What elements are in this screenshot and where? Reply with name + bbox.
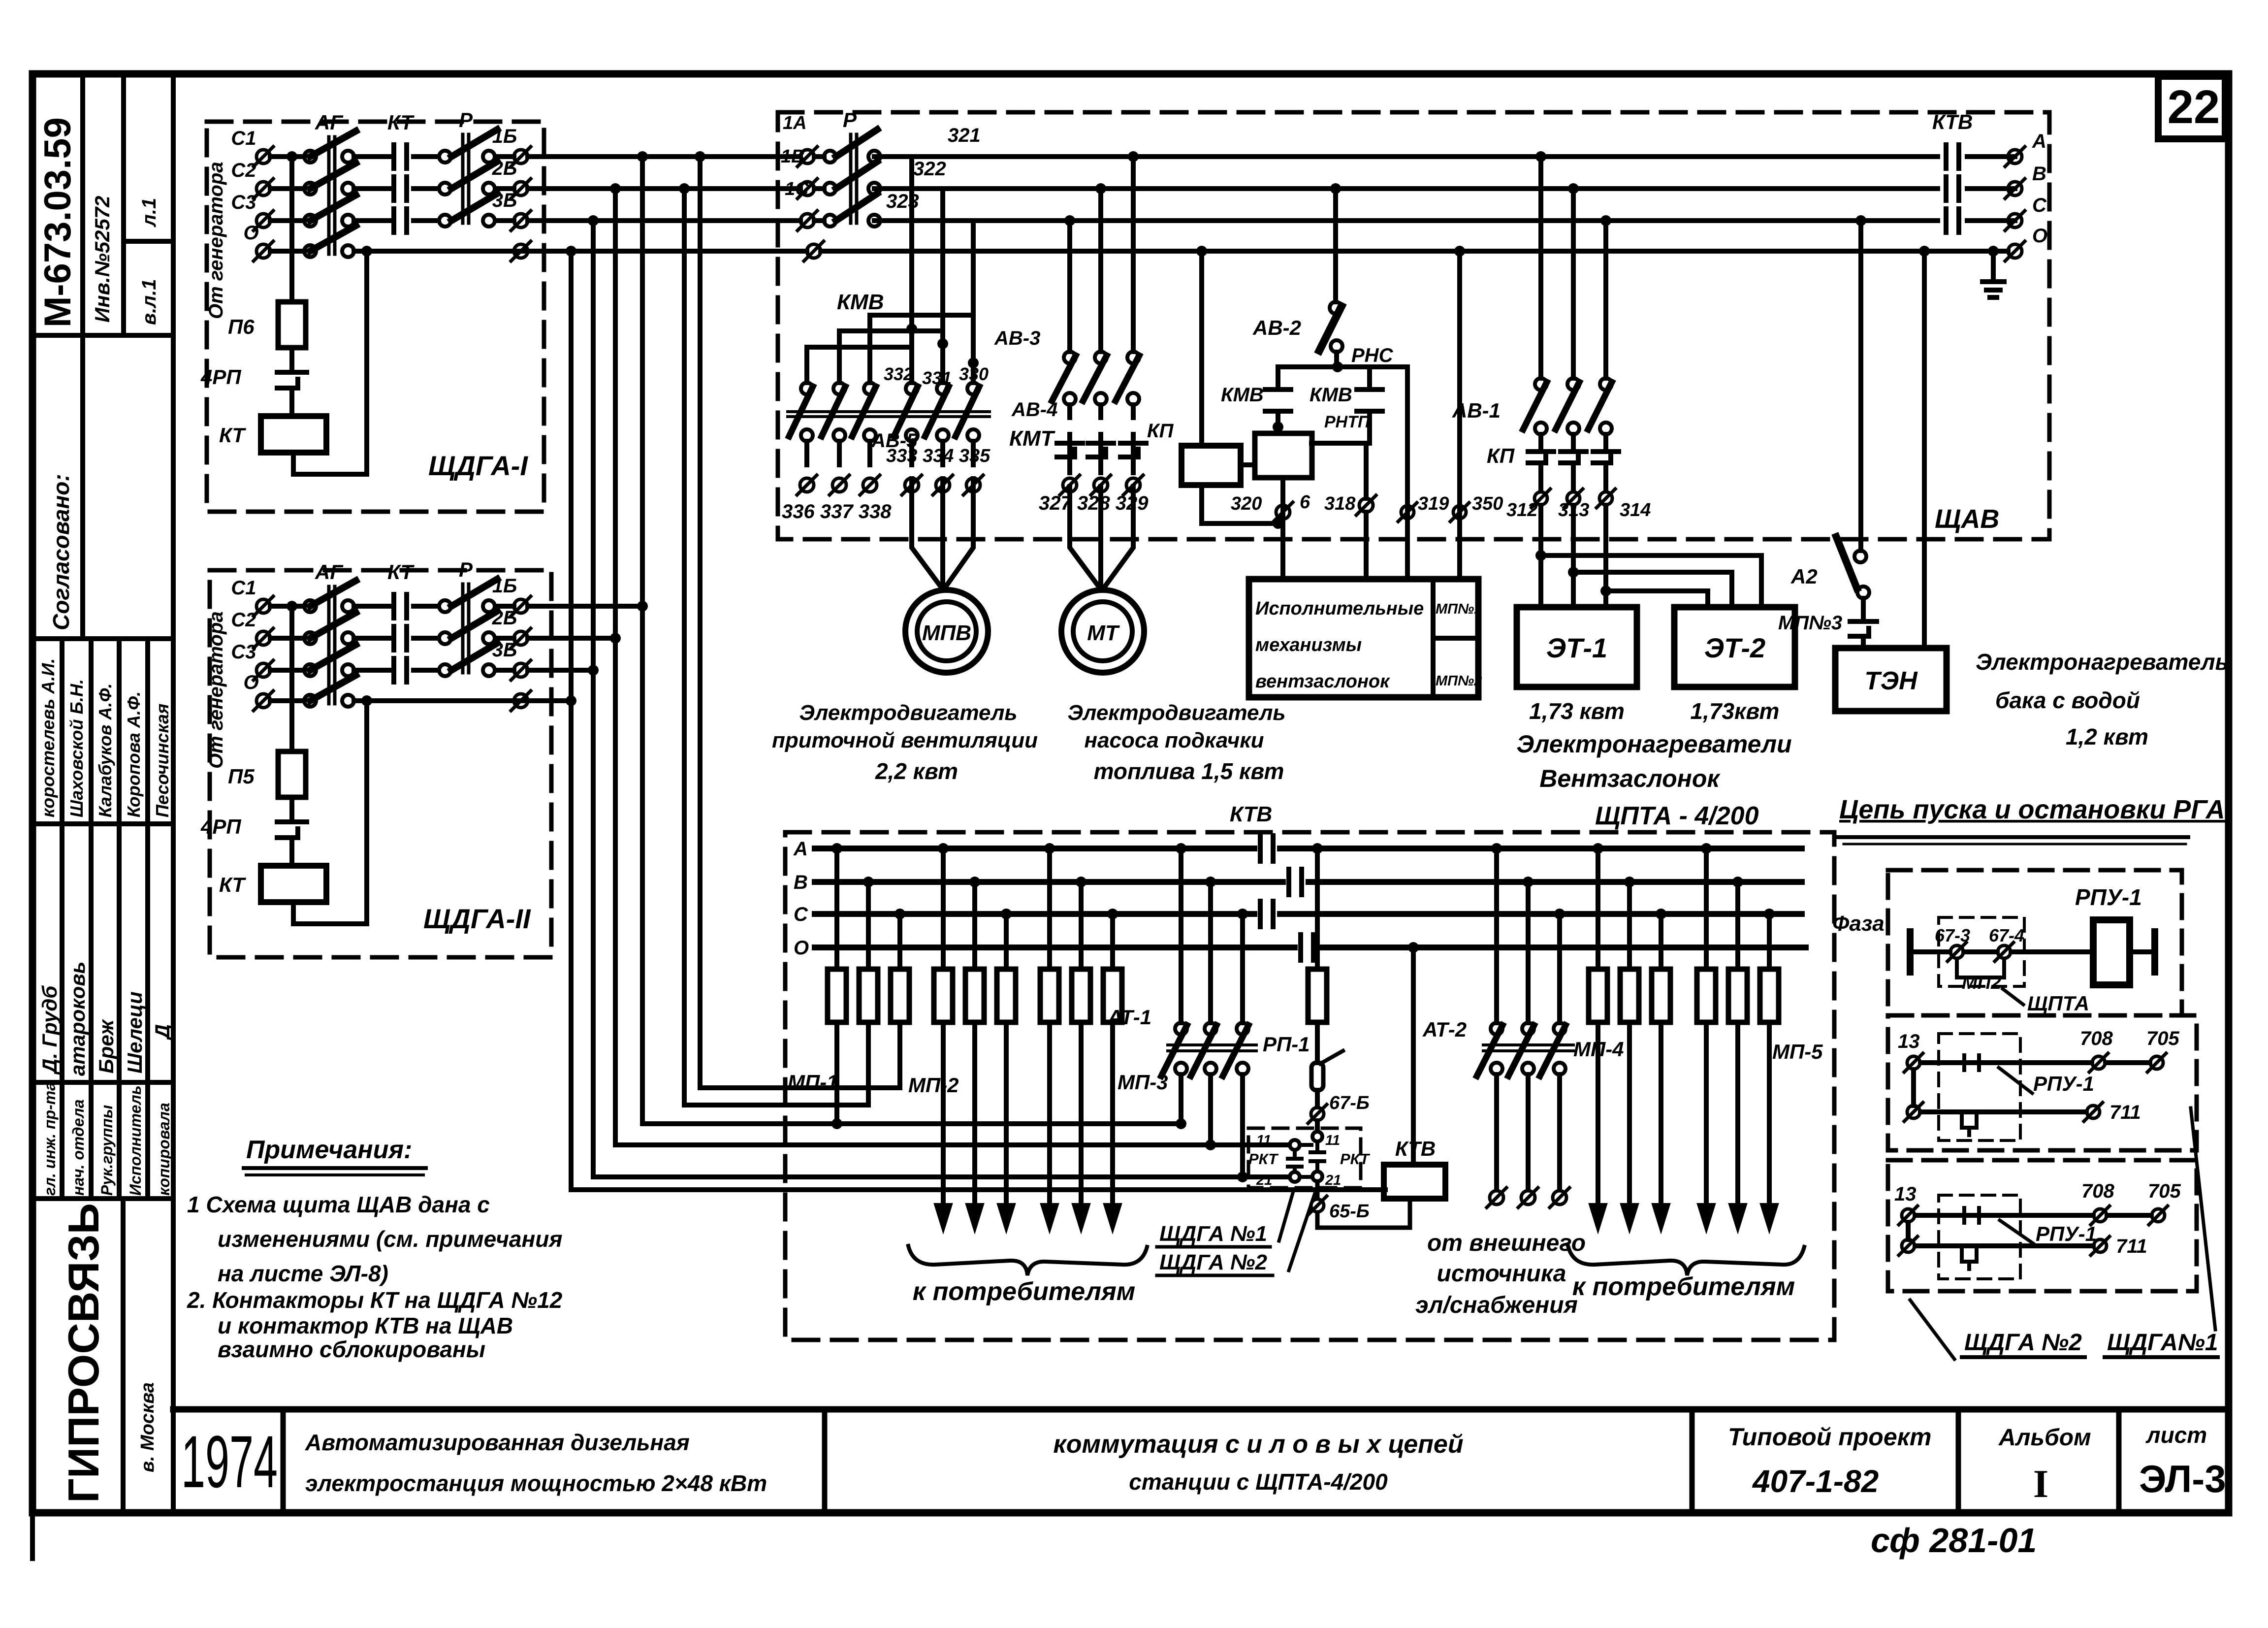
svg-text:22: 22 — [2168, 81, 2220, 133]
fuse group 3 (МП-3) — [1047, 848, 1052, 969]
svg-text:65-Б: 65-Б — [1329, 1201, 1370, 1222]
svg-text:МПВ: МПВ — [922, 621, 971, 645]
svg-text:приточной вентиляции: приточной вентиляции — [772, 728, 1038, 752]
svg-text:336 337 338: 336 337 338 — [782, 501, 892, 522]
svg-text:к потребителям: к потребителям — [913, 1277, 1135, 1306]
junction dots ЩДГА-II outputs — [637, 601, 648, 612]
terminal &#1057;1 — [256, 150, 270, 163]
terminal &#1057;2 — [256, 182, 270, 195]
coil РПУ-1 — [2093, 920, 2130, 985]
svg-text:Бреж: Бреж — [95, 1019, 118, 1074]
svg-text:электростанция мощностью 2×48: электростанция мощностью 2×48 кВт — [305, 1470, 767, 1496]
contact АГ — [304, 215, 316, 227]
bus С — [815, 911, 1802, 917]
svg-text:КМВ: КМВ — [1310, 384, 1352, 406]
contact Р — [439, 664, 451, 676]
svg-text:Вентзаслонок: Вентзаслонок — [1539, 765, 1721, 792]
contact АГ — [304, 600, 316, 612]
svg-text:Согласовано:: Согласовано: — [48, 474, 74, 630]
terminal 1А — [800, 150, 814, 163]
svg-text:321: 321 — [948, 125, 981, 146]
svg-text:Шелеци: Шелеци — [123, 991, 146, 1074]
svg-text:I: I — [2033, 1463, 2048, 1506]
wire: coil branch from С1 — [289, 157, 294, 416]
svg-text:АВ-2: АВ-2 — [1252, 316, 1301, 339]
svg-text:Песочинская: Песочинская — [152, 704, 172, 817]
svg-text:2Б: 2Б — [492, 158, 517, 179]
svg-text:Электродвигатель: Электродвигатель — [799, 701, 1017, 725]
svg-text:В: В — [794, 872, 808, 893]
relay unit box РПУ-1 — [1888, 870, 2182, 1015]
svg-text:ЩДГА-I: ЩДГА-I — [428, 450, 528, 481]
svg-text:КП: КП — [1487, 444, 1515, 467]
contact Р — [439, 632, 451, 644]
wire coil to О — [293, 251, 367, 474]
svg-text:коростелевь А.И.: коростелевь А.И. — [38, 658, 58, 817]
contact РП-1 — [1311, 1063, 1323, 1090]
wires АВ-1 to heaters — [1541, 505, 1761, 607]
terminal О — [2008, 244, 2022, 258]
terminal С — [2008, 214, 2022, 228]
output terminal О — [514, 244, 528, 258]
svg-text:67-Б: 67-Б — [1329, 1093, 1370, 1113]
svg-text:327 328 329: 327 328 329 — [1039, 492, 1149, 514]
svg-text:ТЭН: ТЭН — [1864, 667, 1918, 695]
svg-text:изменениями (см. примечания: изменениями (см. примечания — [218, 1226, 562, 1252]
svg-text:333 334 335: 333 334 335 — [886, 446, 990, 466]
svg-text:КМТ: КМТ — [1009, 426, 1055, 451]
fuse group 2 (МП-2) — [941, 848, 946, 969]
terminals 336 337 338 — [800, 478, 814, 492]
svg-text:КТВ: КТВ — [1230, 802, 1272, 826]
svg-text:Калабуков А.Ф.: Калабуков А.Ф. — [95, 683, 115, 817]
terminals 327 328 329 — [1063, 478, 1077, 492]
svg-text:13: 13 — [1898, 1031, 1920, 1052]
svg-text:АГ: АГ — [315, 560, 344, 584]
wire О to ТЭН — [1922, 251, 1927, 648]
svg-text:2,2 квт: 2,2 квт — [875, 758, 958, 784]
svg-text:1А: 1А — [783, 113, 807, 133]
terminal &#1054; — [256, 244, 270, 258]
svg-text:бака с водой: бака с водой — [1995, 687, 2140, 713]
ground symbol — [1988, 246, 1999, 257]
svg-text:1 Схема щита ЩАВ дана с: 1 Схема щита ЩАВ дана с — [187, 1192, 490, 1217]
svg-text:ЩДГА№1: ЩДГА№1 — [2107, 1330, 2218, 1356]
svg-text:Электронагреватели: Электронагреватели — [1516, 730, 1791, 758]
contact Р — [439, 151, 451, 163]
terminal 1С — [800, 214, 814, 228]
svg-text:КП: КП — [1147, 420, 1174, 442]
svg-text:А2: А2 — [1790, 565, 1818, 588]
svg-text:Р: Р — [459, 558, 473, 581]
fuse &#1055;5 — [278, 751, 306, 797]
svg-text:4РП: 4РП — [200, 365, 241, 389]
bus О — [815, 944, 1806, 950]
svg-text:МТ: МТ — [1087, 621, 1120, 645]
disconnect switch Р — [814, 130, 2015, 251]
fuse group 4 (МП-4) — [1596, 848, 1600, 969]
svg-text:322: 322 — [913, 158, 946, 180]
terminals 320,6 318 319 350 — [1276, 505, 1290, 519]
svg-text:3Б: 3Б — [492, 190, 517, 211]
terminal &#1057;2 — [256, 631, 270, 645]
svg-text:ЩДГА №1: ЩДГА №1 — [1159, 1222, 1267, 1246]
phase feed bar — [1907, 932, 1914, 972]
svg-text:МП2: МП2 — [1962, 973, 2001, 993]
svg-text:2Б: 2Б — [492, 607, 517, 629]
relay contact group box 3 — [1888, 1160, 2197, 1291]
svg-text:КТВ: КТВ — [1932, 110, 1973, 133]
output terminal — [514, 631, 528, 645]
wire v2 — [593, 221, 1289, 1177]
svg-text:ЩДГА-II: ЩДГА-II — [423, 903, 531, 934]
relay contact group box 2 — [1888, 1015, 2197, 1150]
terminals external source — [1490, 1191, 1503, 1205]
РКТ block (ЩДГА changeover) — [1248, 1128, 1361, 1188]
svg-text:А: А — [793, 838, 808, 860]
svg-text:коммутация с и л о в ы х цеп: коммутация с и л о в ы х цепей — [1053, 1430, 1463, 1459]
motor МТ — [1061, 590, 1144, 673]
svg-text:механизмы: механизмы — [1255, 635, 1362, 655]
svg-text:АВ-3: АВ-3 — [994, 327, 1040, 349]
relay coil РНТ — [1255, 433, 1312, 478]
svg-text:С: С — [794, 904, 808, 925]
svg-text:КТ: КТ — [219, 873, 246, 896]
svg-text:С1: С1 — [231, 577, 256, 599]
svg-text:АГ: АГ — [315, 111, 344, 134]
svg-text:ЭТ-2: ЭТ-2 — [1704, 632, 1765, 663]
svg-text:11: 11 — [1325, 1133, 1340, 1148]
wire С to switch А2 — [1858, 221, 1863, 551]
contact АГ — [304, 632, 316, 644]
svg-text:Альбом: Альбом — [1998, 1425, 2091, 1451]
svg-text:копировала: копировала — [155, 1103, 173, 1196]
svg-text:3Б: 3Б — [492, 639, 517, 661]
contact Р — [439, 600, 451, 612]
heater ТЭН box — [1835, 648, 1947, 711]
svg-text:РНТП: РНТП — [1324, 413, 1371, 431]
contact АГ — [304, 151, 316, 163]
feeder wires with arrows (к потребителям, left) — [937, 1022, 1119, 1226]
svg-text:вентзаслонок: вентзаслонок — [1255, 671, 1390, 692]
svg-text:АВ-1: АВ-1 — [1452, 399, 1501, 422]
svg-text:к потребителям: к потребителям — [1572, 1272, 1795, 1301]
svg-text:топлива 1,5 квт: топлива 1,5 квт — [1094, 758, 1284, 784]
svg-text:4РП: 4РП — [200, 815, 241, 838]
svg-text:О: О — [794, 937, 809, 959]
svg-text:О: О — [2032, 225, 2047, 247]
fuse group 1 (МП-1) — [834, 848, 839, 969]
svg-text:67-4: 67-4 — [1989, 925, 2024, 945]
svg-text:насоса подкачки: насоса подкачки — [1085, 728, 1264, 752]
output terminal — [514, 150, 528, 163]
contact АГ — [304, 664, 316, 676]
svg-text:6: 6 — [1300, 492, 1310, 513]
svg-text:А: А — [2032, 130, 2046, 152]
svg-text:Электронагреватель: Электронагреватель — [1976, 649, 2229, 675]
output terminal — [514, 663, 528, 677]
svg-text:Р: Р — [843, 108, 857, 131]
contact 4РП — [277, 372, 307, 388]
wire centre — [1315, 1129, 1320, 1133]
terminal &#1057;1 — [256, 599, 270, 613]
svg-text:407-1-82: 407-1-82 — [1752, 1464, 1879, 1499]
svg-text:2. Контакторы КТ на ЩДГА: 2. Контакторы КТ на ЩДГА №12 — [187, 1287, 563, 1313]
output terminal — [514, 182, 528, 195]
svg-text:Примечания:: Примечания: — [246, 1136, 412, 1164]
svg-text:С: С — [2032, 195, 2047, 216]
svg-text:лист: лист — [2145, 1422, 2207, 1448]
svg-text:С3: С3 — [231, 192, 256, 213]
svg-text:атароковь: атароковь — [66, 961, 89, 1076]
svg-text:взаимно сблокированы: взаимно сблокированы — [218, 1336, 485, 1362]
svg-text:711: 711 — [2116, 1236, 2147, 1257]
svg-text:от внешнего: от внешнего — [1427, 1230, 1586, 1256]
output terminal О — [514, 694, 528, 708]
relay РПУ-1 contact box — [1939, 1195, 2020, 1279]
svg-text:и контактор КТВ на ЩАВ: и контактор КТВ на ЩАВ — [218, 1313, 513, 1338]
svg-text:1Б: 1Б — [492, 126, 517, 147]
fuse РП-1 feed — [1315, 848, 1320, 969]
svg-text:источника: источника — [1437, 1261, 1566, 1287]
svg-text:318: 318 — [1324, 493, 1356, 514]
wire v4 — [642, 157, 1181, 1124]
svg-text:21: 21 — [1325, 1172, 1341, 1188]
contact Р — [439, 215, 451, 227]
terminal 1В — [800, 182, 814, 195]
svg-text:в.л.1: в.л.1 — [138, 279, 160, 325]
svg-text:в. Москва: в. Москва — [137, 1382, 158, 1472]
svg-text:РП-1: РП-1 — [1263, 1033, 1310, 1056]
МП2 contact box (dashed) — [1939, 917, 2024, 986]
fuse group 5 (МП-5) — [1704, 848, 1709, 969]
svg-text:ЭЛ-3: ЭЛ-3 — [2139, 1457, 2226, 1500]
terminal &#1057;3 — [256, 214, 270, 228]
terminal А — [2008, 150, 2022, 163]
svg-text:КМВ: КМВ — [1221, 384, 1264, 406]
leader labels ЩДГА №1 / ЩДГА №2 — [1279, 1190, 1294, 1241]
relay РПУ-1 contact box — [1939, 1034, 2020, 1140]
svg-text:Р: Р — [459, 108, 473, 131]
svg-text:МП-2: МП-2 — [908, 1074, 959, 1097]
svg-text:1,73квт: 1,73квт — [1691, 698, 1780, 724]
terminal О — [807, 244, 821, 258]
svg-text:КМВ: КМВ — [837, 290, 884, 314]
svg-text:С1: С1 — [231, 128, 256, 149]
wire: coil branch from С1 — [289, 606, 294, 866]
contactor КТВ bus contacts — [1260, 836, 1313, 960]
svg-text:КТ: КТ — [387, 111, 415, 134]
brace к потребителям left — [908, 1246, 1147, 1275]
terminal &#1054; — [256, 694, 270, 708]
svg-text:МП-5: МП-5 — [1772, 1040, 1823, 1063]
svg-text:МП-1: МП-1 — [788, 1071, 838, 1094]
fuse &#1055;6 — [278, 302, 306, 348]
terminal В — [2008, 182, 2022, 195]
svg-text:От генератора: От генератора — [205, 611, 227, 769]
svg-text:сф 281-01: сф 281-01 — [1871, 1521, 2037, 1560]
svg-text:КТ: КТ — [219, 423, 246, 447]
brace к потребителям right — [1568, 1246, 1804, 1275]
output terminal — [514, 214, 528, 228]
svg-text:319: 319 — [1418, 493, 1449, 514]
stamp texts — [37, 117, 174, 1503]
svg-text:705: 705 — [2148, 1180, 2181, 1202]
svg-text:1,73 квт: 1,73 квт — [1529, 698, 1625, 724]
svg-text:МП№3: МП№3 — [1778, 612, 1842, 634]
svg-text:РПУ-1: РПУ-1 — [2075, 884, 2142, 910]
svg-text:Рук.группы: Рук.группы — [98, 1105, 116, 1196]
panel box &#1065;&#1044;&#1043;&#1040;-I — [207, 122, 544, 512]
svg-text:С3: С3 — [231, 641, 256, 663]
wire 65-Б to coil КТВ — [1317, 1199, 1410, 1228]
svg-text:РПУ-1: РПУ-1 — [2036, 1222, 2097, 1245]
output terminal — [514, 599, 528, 613]
wire v3 — [615, 189, 1289, 1145]
svg-text:МП№1: МП№1 — [1436, 601, 1482, 617]
terminal 711 — [2094, 1239, 2107, 1252]
svg-text:Шаховской Б.Н.: Шаховской Б.Н. — [66, 679, 87, 817]
contact 4РП — [277, 822, 307, 838]
svg-text:РКТ: РКТ — [1248, 1150, 1279, 1168]
svg-text:Автоматизированная дизельная: Автоматизированная дизельная — [305, 1430, 690, 1455]
svg-text:Д. Грудб: Д. Грудб — [38, 985, 61, 1075]
contact АГ — [304, 183, 316, 195]
svg-text:350: 350 — [1472, 493, 1503, 514]
svg-text:Электродвигатель: Электродвигатель — [1067, 701, 1285, 725]
svg-text:РКТ: РКТ — [1340, 1150, 1371, 1168]
wires fuse group 1 to reserve rows — [897, 1022, 902, 1088]
svg-text:ЩПТА - 4/200: ЩПТА - 4/200 — [1595, 802, 1759, 830]
svg-text:ЩДГА №2: ЩДГА №2 — [1159, 1250, 1267, 1274]
bus В — [815, 879, 1802, 885]
relay coil КТ — [261, 416, 326, 453]
svg-text:П5: П5 — [228, 765, 255, 788]
svg-text:ЩПТА: ЩПТА — [2027, 992, 2089, 1015]
terminal 711 — [2087, 1106, 2100, 1118]
svg-text:708: 708 — [2081, 1180, 2114, 1202]
terminals 333 334 335 — [905, 478, 919, 492]
svg-text:станции с ЩПТА-4/200: станции с ЩПТА-4/200 — [1129, 1469, 1388, 1495]
svg-text:РНС: РНС — [1351, 345, 1394, 366]
labels ЩДГА №2 / ЩДГА №1 — [1910, 1300, 1954, 1359]
svg-text:МП№2: МП№2 — [1436, 673, 1482, 689]
contact Р — [439, 183, 451, 195]
svg-text:гл. инж. пр-та: гл. инж. пр-та — [41, 1082, 59, 1196]
svg-text:21: 21 — [1256, 1172, 1272, 1188]
svg-text:320: 320 — [1231, 493, 1262, 514]
terminal 65-Б — [1311, 1199, 1324, 1212]
svg-text:332: 332 — [884, 364, 913, 384]
svg-text:От генератора: От генератора — [205, 162, 227, 319]
svg-text:312: 312 — [1506, 500, 1537, 521]
bus А — [815, 846, 1802, 851]
svg-text:С2: С2 — [231, 160, 256, 181]
svg-text:Типовой проект: Типовой проект — [1728, 1423, 1931, 1451]
svg-text:Исполнитель: Исполнитель — [127, 1085, 144, 1196]
svg-text:РПУ-1: РПУ-1 — [2033, 1072, 2094, 1095]
svg-text:ЩАВ: ЩАВ — [1935, 504, 1999, 534]
svg-text:Инв.№52572: Инв.№52572 — [91, 195, 114, 323]
svg-text:нач. отдела: нач. отдела — [69, 1099, 87, 1196]
terminal 67-Б — [1311, 1107, 1324, 1120]
svg-text:ЭТ-1: ЭТ-1 — [1546, 632, 1607, 663]
wire v6 — [700, 157, 900, 1088]
bottom title block — [173, 1409, 2229, 1513]
sheet number box 22 — [2158, 76, 2225, 139]
svg-text:эл/снабжения: эл/снабжения — [1415, 1292, 1578, 1318]
svg-text:ЩДГА №2: ЩДГА №2 — [1964, 1330, 2082, 1356]
svg-text:л.1: л.1 — [138, 198, 160, 228]
heater box ЭТ-2 — [1674, 607, 1795, 687]
svg-text:711: 711 — [2109, 1102, 2141, 1123]
left stamp table — [32, 74, 173, 1513]
svg-text:на листе ЭЛ-8): на листе ЭЛ-8) — [218, 1261, 388, 1286]
panel box &#1065;&#1044;&#1043;&#1040;-II — [210, 570, 551, 957]
svg-text:АТ-1: АТ-1 — [1107, 1006, 1151, 1029]
svg-text:В: В — [2032, 163, 2046, 185]
svg-text:708: 708 — [2080, 1028, 2113, 1049]
svg-text:Фаза: Фаза — [1832, 912, 1885, 936]
svg-text:11: 11 — [1256, 1133, 1271, 1148]
svg-text:314: 314 — [1620, 500, 1651, 521]
svg-text:ГИПРОСВЯЗЬ: ГИПРОСВЯЗЬ — [59, 1203, 108, 1503]
wire v5 — [684, 189, 868, 1105]
svg-text:1Б: 1Б — [492, 575, 517, 597]
svg-text:Коропова А.Ф.: Коропова А.Ф. — [124, 691, 144, 817]
terminals 312 313 314 — [1534, 492, 1547, 505]
svg-text:КТ: КТ — [387, 560, 415, 584]
wire coil to О — [293, 701, 367, 924]
relay coil КТ — [261, 866, 326, 902]
svg-text:Цепь пуска и остановки РГА: Цепь пуска и остановки РГА — [1839, 795, 2225, 824]
svg-text:705: 705 — [2146, 1028, 2179, 1049]
wire v1 — [571, 251, 1385, 1190]
svg-text:Исполнительные: Исполнительные — [1255, 598, 1424, 619]
svg-text:АТ-2: АТ-2 — [1422, 1018, 1467, 1041]
svg-text:Д: Д — [151, 1024, 174, 1041]
feeder wires with arrows (к потребителям, right) — [1592, 1022, 1776, 1226]
svg-text:1974: 1974 — [181, 1420, 278, 1503]
svg-text:M-673.03.59: M-673.03.59 — [37, 117, 79, 327]
svg-text:П6: П6 — [228, 315, 255, 338]
svg-text:13: 13 — [1894, 1183, 1917, 1205]
terminal &#1057;3 — [256, 663, 270, 677]
svg-text:С2: С2 — [231, 609, 256, 631]
svg-text:1,2 квт: 1,2 квт — [2066, 724, 2148, 749]
